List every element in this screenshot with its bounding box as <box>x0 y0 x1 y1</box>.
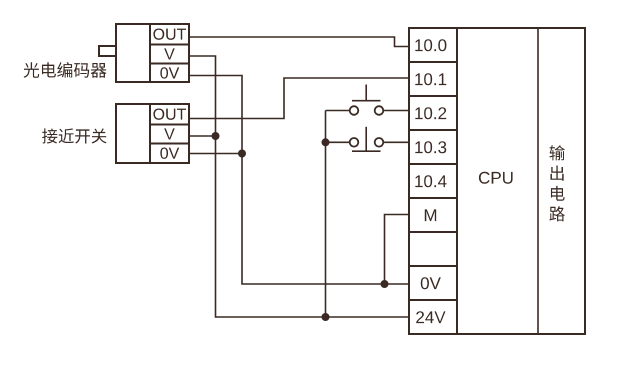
input terminal column right edge <box>456 28 458 334</box>
pushbutton SB1 actuator bar <box>352 100 381 102</box>
label CPU <box>479 172 513 184</box>
pushbutton SB2 (NC) left contact <box>350 138 359 147</box>
sensor B2 proximity switch body <box>116 104 150 163</box>
terminal divider 10.1/10.2 <box>409 95 457 97</box>
photoelectric encoder terminal block <box>150 24 189 82</box>
terminal label 10.3 <box>415 141 446 153</box>
wire proximity 0V stub to 0V bus <box>189 153 242 155</box>
wire proximity V stub to +V bus <box>189 135 216 137</box>
wire switch bus vertical to 24V line <box>325 111 327 318</box>
terminal label 24V <box>416 311 445 323</box>
terminal label 0V <box>421 277 441 289</box>
label 光电编码器 (photoelectric encoder) <box>24 62 107 78</box>
terminal divider OUT/V (encoder) <box>150 44 189 46</box>
junction switch bus / SB2 <box>322 138 330 146</box>
terminal divider V/0V (proximity) <box>150 143 189 145</box>
terminal label 10.0 <box>415 39 446 51</box>
terminal divider OUT/V (proximity) <box>150 124 189 126</box>
pin label 0V (encoder) <box>160 67 179 78</box>
terminal divider 10.3/10.4 <box>409 163 457 165</box>
pin label OUT (encoder) <box>153 28 186 39</box>
junction M loop / 0V line <box>381 280 389 288</box>
label 接近开关 (proximity switch) <box>42 128 106 143</box>
pin label V (proximity) <box>164 128 175 139</box>
junction +V bus / proximity V <box>212 132 220 140</box>
pushbutton SB1 (NO) left contact <box>350 106 359 115</box>
pin label V (encoder) <box>164 48 175 59</box>
terminal divider 10.2/10.3 <box>409 129 457 131</box>
terminal label M <box>425 209 436 221</box>
terminal divider 10.0/10.1 <box>409 61 457 63</box>
wire 0V bus: encoder 0V down to 0V terminal <box>189 76 409 285</box>
proximity switch terminal block <box>150 104 189 163</box>
terminal divider empty/0V <box>409 265 457 267</box>
PLC outline box <box>409 28 585 334</box>
junction switch bus / 24V line <box>322 313 330 321</box>
wire +V bus: encoder V down to 24V terminal <box>189 56 409 317</box>
pushbutton SB2 actuator stem <box>365 127 367 151</box>
pushbutton SB1 (NO) right contact <box>375 106 384 115</box>
junction 0V bus / proximity 0V <box>238 150 246 158</box>
wire SB2 right contact to input 10.3 <box>383 141 409 143</box>
terminal divider 10.4/M <box>409 197 457 199</box>
terminal divider 0V/24V <box>409 299 457 301</box>
wire M terminal loop to 0V bus <box>385 215 410 285</box>
CPU / output-circuit divider <box>537 28 539 334</box>
terminal divider V/0V (encoder) <box>150 63 189 65</box>
terminal label 10.2 <box>415 107 446 119</box>
wire SB2 left contact to switch bus <box>326 141 350 143</box>
sensor B1 photoelectric encoder body <box>116 24 150 82</box>
pushbutton SB2 actuator bar <box>352 150 381 152</box>
pin label 0V (proximity) <box>160 147 179 158</box>
terminal divider M/empty <box>409 231 457 233</box>
wire encoder OUT to input 10.0 <box>189 37 409 47</box>
photoelectric encoder shaft tab <box>99 46 116 56</box>
terminal label 10.1 <box>415 73 446 85</box>
wire SB1 right contact to input 10.2 <box>383 110 409 112</box>
pushbutton SB2 (NC) right contact <box>375 138 384 147</box>
pushbutton SB1 actuator stem <box>365 85 367 101</box>
wire proximity OUT to input 10.1 <box>189 78 409 119</box>
wire SB1 left contact to switch bus <box>326 110 350 112</box>
terminal label 10.4 <box>415 175 446 187</box>
label 输出电路 (output circuit) <box>549 145 564 221</box>
pin label OUT (proximity) <box>153 108 186 119</box>
